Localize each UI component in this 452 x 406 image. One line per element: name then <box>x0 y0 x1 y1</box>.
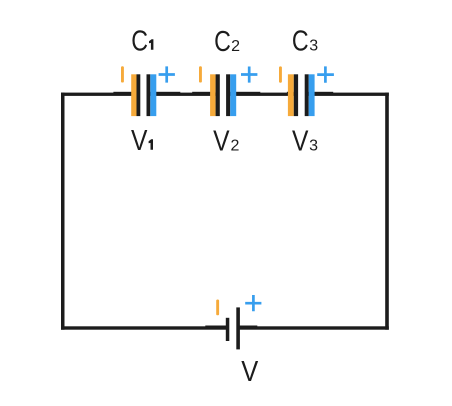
capacitor C2 <box>199 66 257 116</box>
svg-text:V: V <box>131 124 147 156</box>
C1 right plate <box>147 74 151 116</box>
wire lead out of C1 right <box>147 92 180 93</box>
C2 left plate <box>216 74 220 116</box>
wire lead out of battery right <box>237 326 257 327</box>
svg-text:C: C <box>131 24 148 57</box>
battery long plate (positive) <box>236 307 240 349</box>
svg-text:C: C <box>292 24 309 57</box>
C1 blue charge bar (positive plate) <box>150 74 156 116</box>
C1 minus mark <box>121 66 124 82</box>
wire bottom segment 1 (left corner to battery) <box>61 326 229 329</box>
C3 plus mark <box>317 66 334 82</box>
battery plus mark <box>245 295 261 311</box>
wire lead into C3 left <box>287 92 294 93</box>
svg-text:3: 3 <box>309 137 318 154</box>
C3 orange charge bar (negative plate) <box>288 74 294 116</box>
capacitor C3 <box>279 66 334 116</box>
svg-text:C: C <box>214 24 231 57</box>
wire lead into C1 left <box>113 92 139 93</box>
label C1 <box>131 24 153 57</box>
label V2 <box>213 125 239 157</box>
battery V <box>216 295 261 349</box>
svg-text:V: V <box>241 355 259 388</box>
svg-text:V: V <box>213 125 229 157</box>
wire right vertical <box>385 93 389 330</box>
C2 minus mark <box>199 66 202 82</box>
wire top segment 4 (C3 to right corner) <box>306 93 389 96</box>
label C2 <box>214 24 240 57</box>
C2 plus mark <box>241 67 257 83</box>
wire left vertical <box>61 93 65 330</box>
wire lead into C2 left <box>192 92 215 93</box>
label V1 <box>131 124 153 156</box>
C3 minus mark <box>279 66 282 82</box>
wire lead out of C2 right <box>227 92 260 93</box>
wire top segment 2 (C1 to C2) <box>147 93 218 96</box>
wire lead out of C3 right <box>305 92 333 93</box>
C3 right plate <box>305 74 309 116</box>
C1 plus mark <box>159 66 175 82</box>
svg-text:3: 3 <box>309 38 318 55</box>
C1 orange charge bar (negative plate) <box>131 74 136 116</box>
C2 orange charge bar (negative plate) <box>210 74 216 116</box>
label V3 <box>292 125 318 157</box>
svg-text:V: V <box>292 125 308 157</box>
C2 right plate <box>226 74 230 116</box>
wire top segment 3 (C2 to C3) <box>227 93 297 96</box>
wire top segment 1 (left corner to C1) <box>61 93 140 96</box>
wire bottom segment 2 (battery to right corner) <box>237 326 389 329</box>
C2 blue charge bar (positive plate) <box>230 74 236 116</box>
wire lead into battery left <box>205 326 226 327</box>
battery minus mark <box>216 300 219 316</box>
label C3 <box>292 24 318 57</box>
svg-text:2: 2 <box>231 137 240 154</box>
battery short plate (negative) <box>226 318 230 341</box>
C1 left plate <box>137 74 141 116</box>
C3 left plate <box>294 74 298 116</box>
capacitor C1 <box>121 66 175 116</box>
C3 blue charge bar (positive plate) <box>309 74 315 116</box>
svg-text:2: 2 <box>231 38 240 55</box>
